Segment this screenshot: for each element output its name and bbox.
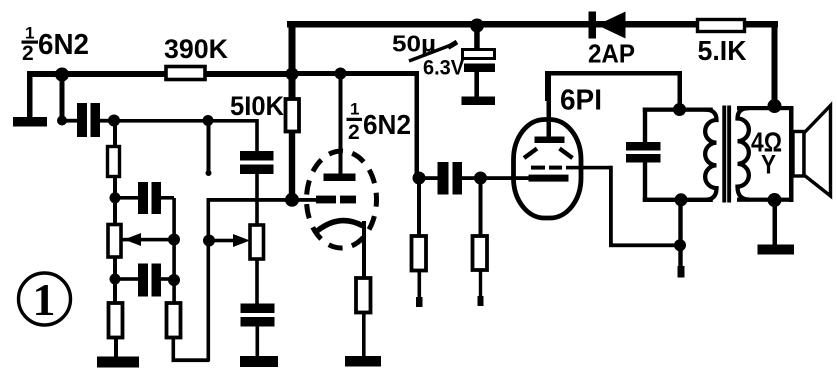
tube 6P1 screen grid dashes (531, 166, 562, 170)
tube 6P1 control grid bar (515, 175, 569, 182)
wire left end drop to ground (27, 71, 33, 119)
node junction mid column row3 (168, 274, 180, 286)
ground input left (13, 117, 47, 127)
svg-text:6N2: 6N2 (38, 29, 89, 61)
svg-text:5I0K: 5I0K (230, 91, 284, 121)
node junction B+ x filter cap (470, 19, 484, 33)
tube 6P1 plate (535, 75, 565, 143)
speaker driver box (793, 132, 804, 177)
svg-text:Y: Y (761, 150, 776, 180)
node junction wiper1 (168, 234, 180, 246)
capacitor input coupling (77, 103, 100, 137)
svg-text:1: 1 (25, 24, 34, 43)
label tube V1b half 6N2 (347, 100, 412, 145)
ground V1b cathode (345, 356, 381, 367)
label speaker 4ohm Y (751, 127, 782, 180)
label resistor 390K (164, 34, 228, 64)
ground ladder right (240, 356, 278, 367)
resistor R 390K body (166, 67, 205, 80)
svg-text:5.IK: 5.IK (698, 35, 747, 66)
transformer T1 primary winding scallops (705, 110, 717, 200)
wire main horizontal bus (27, 71, 418, 77)
potentiometer P2 wiper arrow (209, 234, 250, 247)
wire grid row horizontal (207, 198, 317, 202)
capacitor ladder C-c top (240, 119, 274, 174)
node junction coupling cap right (474, 172, 487, 185)
tube V1b plate bar (324, 174, 356, 182)
node junction bus x 510K (286, 68, 299, 81)
node junction left column row3 (110, 274, 121, 285)
resistor V1b cathode (356, 278, 371, 358)
node junction primary top (673, 103, 686, 116)
svg-text:6PI: 6PI (560, 85, 602, 117)
capacitor coupling to 6P1 (438, 162, 463, 195)
node junction grid row x 510K (285, 193, 299, 207)
ground ladder left (97, 357, 139, 368)
potentiometer P1 body (108, 199, 121, 279)
svg-text:2: 2 (348, 121, 360, 144)
ground filter cap (462, 97, 496, 106)
capacitor ladder C-d bottom (241, 304, 275, 358)
wire bus corner down to coupling cap (415, 71, 420, 178)
label capacitor 50uF (392, 31, 464, 80)
circled figure number 1 (19, 273, 71, 325)
svg-text:1: 1 (33, 274, 56, 325)
resistor R 5.1K body (698, 20, 745, 32)
svg-text:390K: 390K (164, 34, 228, 64)
potentiometer P2 body (250, 174, 264, 305)
resistor below node right (473, 178, 488, 306)
node junction left column row2 (110, 192, 121, 203)
wire input cap row (60, 119, 116, 123)
node junction wiper2 (203, 235, 215, 247)
node junction secondary top (768, 99, 782, 113)
wire cap row2 left (115, 196, 174, 200)
diode D 2AP (589, 12, 626, 39)
tube V1b envelope dashed (307, 151, 377, 248)
transformer T1 secondary loop (737, 106, 794, 202)
wire ladder bottom link (172, 198, 211, 362)
resistor below node left (412, 178, 427, 307)
capacitor electrolytic 50u (463, 25, 496, 98)
tube 6P1 beam plates (524, 149, 573, 159)
label tube V1 half 6N2 (22, 24, 90, 66)
wire mid column vertical (172, 198, 176, 303)
ground secondary (758, 200, 795, 255)
resistor ladder R-c mid column (167, 303, 181, 362)
wire stub dead-end below mid node (206, 120, 212, 176)
tube 6P1 envelope (514, 120, 582, 219)
potentiometer P1 wiper arrow (122, 233, 175, 246)
node junction secondary bottom (768, 193, 782, 207)
svg-text:1: 1 (350, 100, 359, 119)
label resistor 510K (230, 91, 284, 121)
resistor ladder R-b bottom left (109, 279, 123, 358)
svg-text:2: 2 (22, 42, 34, 65)
svg-text:2AP: 2AP (588, 39, 635, 69)
node junction screen rail (674, 239, 686, 251)
transformer T1 primary loop (643, 108, 713, 203)
wire tone ladder top (114, 119, 258, 123)
capacitor across primary (626, 142, 661, 163)
wire coupling cap row (419, 176, 515, 180)
speaker horn (804, 106, 831, 197)
resistor R 510K body (286, 99, 300, 201)
label diode 2AP (588, 39, 635, 69)
wire B+ feed stub below transformer (678, 202, 685, 278)
transformer T1 core (722, 106, 731, 203)
wire V1b cathode lead down (362, 221, 366, 278)
node junction coupling cap left (413, 172, 426, 185)
tube V1b grid dashes (316, 196, 356, 204)
node junction tone ladder top left (108, 115, 120, 127)
tube V1b cathode arc (317, 221, 363, 231)
capacitor ladder C-b (138, 264, 161, 297)
node junction ladder top mid (203, 115, 214, 126)
svg-text:6.3V: 6.3V (423, 57, 464, 80)
wire 6P1 plate to transformer top (545, 71, 682, 111)
wire B+ top bus (287, 21, 778, 28)
wire riser 510K top (289, 21, 296, 101)
node junction primary bottom (675, 193, 688, 206)
node junction on bus at input (55, 68, 69, 126)
wire 6P1 screen to B+ rail (566, 166, 681, 247)
label resistor 5.1K (698, 35, 747, 66)
label tube 6P1 (560, 85, 602, 117)
transformer T1 secondary winding scallops (738, 108, 750, 199)
wire cap row3 (115, 277, 175, 281)
capacitor ladder C-a (138, 182, 161, 214)
resistor ladder R-a (108, 122, 120, 198)
node junction bus to V1b plate (335, 68, 347, 176)
wire B+ corner down to output transformer (772, 21, 778, 109)
svg-text:6N2: 6N2 (363, 109, 411, 140)
